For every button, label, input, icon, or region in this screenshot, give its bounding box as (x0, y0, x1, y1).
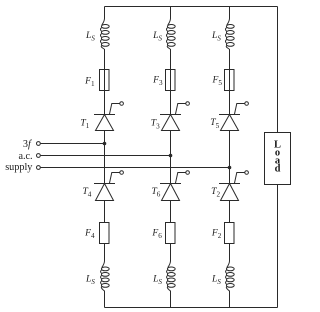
svg-text:T3: T3 (151, 118, 160, 131)
svg-text:a.c.: a.c. (18, 151, 32, 162)
svg-text:LS: LS (152, 274, 162, 287)
svg-text:LS: LS (152, 30, 162, 43)
svg-text:F3: F3 (152, 74, 163, 87)
svg-text:F1: F1 (84, 75, 95, 88)
svg-text:F4: F4 (84, 228, 95, 241)
svg-text:F2: F2 (211, 227, 222, 240)
svg-text:LS: LS (211, 274, 221, 287)
svg-text:supply: supply (5, 162, 33, 173)
svg-text:T4: T4 (82, 186, 91, 199)
svg-text:LS: LS (211, 30, 221, 43)
svg-text:T6: T6 (151, 186, 160, 199)
svg-text:T2: T2 (211, 186, 220, 199)
svg-text:F5: F5 (212, 74, 223, 87)
svg-text:d: d (275, 164, 281, 175)
svg-text:T5: T5 (210, 117, 219, 130)
svg-text:F6: F6 (151, 227, 162, 240)
svg-text:LS: LS (85, 30, 95, 43)
svg-text:T1: T1 (80, 117, 89, 130)
svg-text:LS: LS (85, 274, 95, 287)
svg-text:3f: 3f (23, 139, 32, 150)
